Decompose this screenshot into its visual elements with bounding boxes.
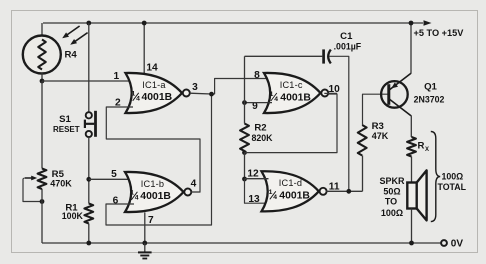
svg-text:3: 3 — [192, 82, 198, 93]
resistor R5 — [38, 169, 47, 190]
svg-text:4001B: 4001B — [279, 191, 310, 202]
wire pin10 output — [324, 92, 337, 94]
wire left rail upper — [41, 81, 43, 169]
wire pin9 input wire — [245, 102, 273, 104]
wire pin5 input wire — [89, 178, 134, 180]
node supply arrow terminal — [424, 20, 432, 26]
svg-text:IC1-a: IC1-a — [142, 80, 166, 90]
light arrow 1 — [65, 26, 80, 37]
wire C1 right wire — [329, 56, 349, 191]
node junction C1-pin11 — [346, 189, 351, 194]
wire Q1 emitter to rail — [410, 23, 412, 74]
node junction wiper — [40, 199, 45, 204]
wire pin1 input wire — [42, 80, 133, 82]
svg-text:4001B: 4001B — [140, 191, 171, 202]
svg-text:4: 4 — [274, 96, 278, 103]
svg-text:7: 7 — [148, 215, 154, 226]
node junction R4-R5-pin1 — [40, 79, 45, 84]
wire pin4 output — [191, 191, 200, 193]
svg-text:5: 5 — [111, 169, 117, 180]
wire R4 bottom lead — [41, 73, 43, 82]
wire Q1 collector lead — [410, 115, 412, 137]
node junction top rail S1 — [86, 21, 91, 26]
op-amp U4 gate IC1-d — [262, 171, 319, 211]
node junction pin9 — [242, 100, 247, 105]
wire speaker bottom lead — [411, 209, 413, 244]
svg-text:2N3702: 2N3702 — [414, 95, 445, 105]
wire pin2 feedback from pin4 — [106, 107, 200, 192]
svg-text:6: 6 — [113, 195, 119, 206]
light arrow 2 — [73, 33, 88, 44]
svg-text:Q1: Q1 — [424, 82, 437, 93]
node junction pin7 rail — [142, 241, 147, 246]
svg-text:13: 13 — [248, 194, 260, 205]
wire C1 left wire — [245, 55, 323, 57]
resistor R2 — [240, 124, 249, 152]
svg-text:4001B: 4001B — [280, 92, 311, 103]
node junction emitter rail — [409, 21, 414, 26]
svg-text:100Ω: 100Ω — [442, 172, 464, 182]
wire bottom 0V rail — [42, 242, 441, 244]
wiper arrow R5 — [25, 177, 32, 179]
svg-text:4: 4 — [191, 179, 197, 190]
svg-text:IC1-b: IC1-b — [141, 179, 164, 189]
svg-text:470K: 470K — [50, 178, 72, 188]
wire S1 upper wire — [88, 23, 90, 112]
brace 100 ohm total — [431, 132, 440, 222]
svg-text:1: 1 — [130, 190, 134, 197]
svg-text:47K: 47K — [372, 131, 389, 141]
wire pin12 input wire — [245, 178, 269, 180]
wire R4 top lead — [41, 23, 43, 36]
node junction speaker rail — [409, 241, 414, 246]
wire S1 lower wire — [88, 137, 90, 203]
wire R3 top to base — [363, 94, 388, 125]
svg-text:4001B: 4001B — [142, 92, 173, 103]
svg-text:TO: TO — [385, 197, 397, 207]
svg-text:100Ω: 100Ω — [381, 208, 403, 218]
node junction pin3-pin6 — [209, 92, 214, 97]
node 0V terminal — [441, 240, 447, 246]
svg-text:4: 4 — [135, 195, 139, 202]
svg-text:0V: 0V — [451, 238, 464, 249]
wire pin6 feedback from pin3 — [106, 94, 212, 225]
capacitor C1 — [322, 49, 325, 63]
ground — [144, 243, 146, 252]
node junction pin14 rail — [142, 21, 147, 26]
op-amp U1 gate IC1-a — [126, 73, 183, 113]
svg-text:1: 1 — [269, 189, 273, 196]
wire R1 bottom lead — [88, 224, 90, 244]
wire pin13 drop — [245, 179, 272, 203]
wire pin14 lead — [143, 23, 145, 74]
transistor Q1 — [381, 81, 408, 108]
svg-text:+5 TO +15V: +5 TO +15V — [414, 28, 465, 38]
svg-text:14: 14 — [146, 63, 158, 74]
svg-text:IC1-c: IC1-c — [280, 80, 303, 90]
svg-text:50Ω: 50Ω — [383, 186, 400, 196]
wire pin3 output — [190, 92, 215, 95]
wire Rx to speaker — [411, 157, 413, 183]
svg-text:RESET: RESET — [53, 125, 80, 134]
svg-text:IC1-d: IC1-d — [279, 178, 302, 188]
photocell R4 — [23, 36, 61, 74]
wire top supply rail — [43, 22, 423, 24]
svg-text:1: 1 — [132, 91, 136, 98]
node junction pin5 — [86, 177, 91, 182]
svg-text:1: 1 — [113, 71, 119, 82]
wire R2-pin10 loop — [245, 94, 338, 153]
svg-text:R4: R4 — [65, 50, 78, 61]
wire pin9 riser to C1 — [244, 56, 246, 103]
svg-text:SPKR: SPKR — [379, 176, 405, 186]
svg-text:X: X — [425, 147, 429, 153]
op-amp U3 gate IC1-c — [264, 73, 321, 113]
op-amp U2 gate IC1-b — [125, 172, 184, 212]
svg-text:TOTAL: TOTAL — [438, 182, 467, 192]
svg-text:S1: S1 — [59, 114, 71, 125]
node junction pin12 — [242, 177, 247, 182]
wire pin11 output — [326, 190, 363, 192]
wire pin7 lead — [144, 212, 146, 243]
svg-text:100K: 100K — [62, 211, 84, 221]
resistor R1 — [84, 204, 93, 224]
wire R2 top lead — [244, 103, 246, 124]
node junction R2 bottom — [242, 150, 247, 155]
resistor R3 — [358, 125, 367, 156]
wire R5 wiper loop — [23, 178, 41, 202]
node junction R1-rail — [86, 241, 91, 246]
wire R3 bottom riser — [362, 156, 364, 192]
svg-text:1: 1 — [270, 91, 274, 98]
switch S1 — [86, 112, 92, 118]
svg-text:4: 4 — [273, 194, 277, 201]
svg-text:R: R — [418, 141, 425, 152]
speaker SPKR — [407, 183, 416, 209]
resistor RX — [407, 137, 416, 157]
svg-text:820K: 820K — [251, 133, 273, 143]
wire pin3 to pin8 — [215, 79, 272, 95]
wire left rail lower — [41, 189, 43, 243]
svg-text:.001µF: .001µF — [334, 41, 362, 51]
wire R2 to pin12 — [244, 153, 246, 179]
svg-text:8: 8 — [254, 70, 260, 81]
svg-text:4: 4 — [136, 96, 140, 103]
